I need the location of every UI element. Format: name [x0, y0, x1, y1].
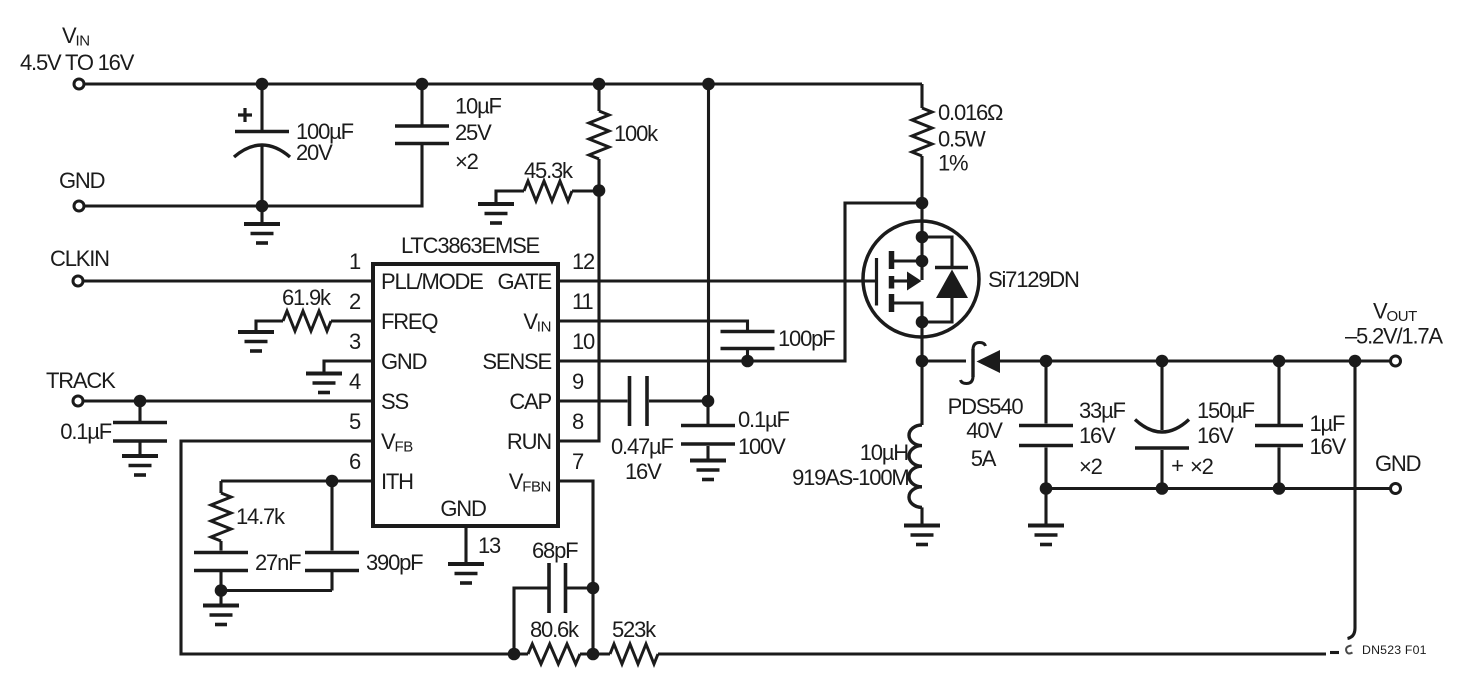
svg-text:×2: ×2: [1079, 454, 1103, 479]
svg-text:5A: 5A: [971, 446, 997, 471]
resistor R1 100k: [589, 84, 659, 159]
svg-text:100k: 100k: [614, 121, 659, 146]
svg-text:PLL/MODE: PLL/MODE: [381, 269, 483, 294]
wire GND pin 13: [464, 526, 467, 564]
Q1 drain stub: [892, 303, 923, 361]
junction R1 / R2 node: [593, 184, 606, 197]
svg-text:27nF: 27nF: [255, 550, 301, 575]
svg-text:–5.2V/1.7A: –5.2V/1.7A: [1345, 324, 1443, 349]
wire R3 to ground: [256, 321, 283, 332]
capacitor C3 0.1uF: [60, 401, 167, 456]
wire SENSE pin 10: [558, 203, 922, 361]
capacitor C1 100uF 20V: [234, 84, 354, 206]
junction input rail / C2: [416, 78, 429, 91]
Q1 body arrow head: [907, 272, 922, 291]
resistor R2 45.3k: [524, 158, 574, 201]
svg-text:×2: ×2: [1190, 454, 1214, 479]
node output GND terminal: [1375, 451, 1421, 494]
Q1 gate bar: [875, 258, 878, 306]
resistor R6 523k: [610, 617, 658, 664]
ground at R3: [238, 332, 274, 351]
Q1 source stub: [892, 259, 923, 262]
svg-text:523k: 523k: [612, 617, 657, 642]
svg-text:0.016Ω: 0.016Ω: [938, 100, 1003, 125]
svg-text:0.5W: 0.5W: [938, 127, 986, 152]
wire C9 left leg: [514, 588, 549, 654]
svg-text:10: 10: [572, 329, 595, 354]
svg-text:CLKIN: CLKIN: [50, 246, 109, 271]
junction Q1 source stub: [916, 255, 929, 268]
wire ITH pin 6: [221, 479, 373, 482]
U1 right pin labels: [482, 269, 551, 496]
ground below C8: [690, 461, 726, 480]
wire TRACK to SS pin 4: [83, 399, 373, 402]
svg-text:4: 4: [349, 369, 361, 394]
junction R7 / Q1 source: [916, 197, 929, 210]
svg-text:SS: SS: [381, 389, 408, 414]
ground below C1: [244, 206, 280, 243]
wire VOUT feedback drop: [1348, 361, 1356, 639]
junction bottom rail / C12: [1273, 482, 1286, 495]
wire R1 bottom to RUN pin: [558, 159, 599, 441]
Q1 body diode branch bottom: [922, 298, 952, 322]
wire VIN top rail: [84, 82, 922, 85]
svg-text:1%: 1%: [938, 151, 968, 176]
junction output rail / C11: [1156, 355, 1169, 368]
svg-text:61.9k: 61.9k: [282, 285, 332, 310]
svg-text:Si7129DN: Si7129DN: [988, 267, 1079, 292]
U1 bottom GND label: [440, 496, 486, 521]
svg-text:6: 6: [349, 449, 361, 474]
junction output rail / C12: [1273, 355, 1286, 368]
wire VIN rail to CAP node: [707, 84, 710, 401]
wire C7 to CAP node: [649, 399, 708, 402]
transistor Q1 Si7129DN circle: [863, 221, 1079, 337]
capacitor C8 0.1uF 100V: [681, 401, 789, 460]
capacitor C2 10uF 25V x2: [395, 84, 502, 174]
wire output GND rail: [1046, 487, 1391, 490]
wire C9 right leg: [566, 586, 594, 589]
svg-text:8: 8: [572, 409, 584, 434]
svg-text:25V: 25V: [455, 120, 492, 145]
wire D1 to output rail: [999, 359, 1391, 362]
svg-text:919AS-100M: 919AS-100M: [792, 465, 908, 490]
capacitor C5 390pF: [305, 481, 423, 591]
junction Q1 drain stub: [916, 316, 929, 329]
svg-text:100pF: 100pF: [778, 326, 835, 351]
svg-text:GND: GND: [440, 496, 486, 521]
diode D1 schottky cathode: [961, 343, 986, 384]
svg-text:13: 13: [478, 533, 501, 558]
svg-text:TRACK: TRACK: [46, 368, 116, 393]
svg-text:SENSE: SENSE: [482, 349, 551, 374]
svg-text:4.5V TO 16V: 4.5V TO 16V: [20, 50, 135, 75]
svg-text:14.7k: 14.7k: [236, 504, 286, 529]
ground at pin 3: [306, 374, 342, 393]
svg-text:68pF: 68pF: [532, 538, 578, 563]
capacitor C10 33uF 16V x2: [1019, 361, 1126, 489]
capacitor C6 100pF: [721, 326, 836, 361]
Q1 body diode cathode bar: [935, 266, 968, 270]
svg-text:16V: 16V: [1197, 423, 1234, 448]
ground at pin 13: [448, 564, 484, 583]
U1 right pin numbers: [572, 249, 595, 474]
Q1 vertical source line: [920, 203, 923, 280]
svg-text:CAP: CAP: [509, 389, 551, 414]
junction feedback rail mid: [587, 648, 600, 661]
wire VFB pin 5 feedback loop: [181, 441, 528, 654]
svg-text:GND: GND: [381, 349, 427, 374]
junction ITH node: [326, 475, 339, 488]
capacitor C4 27nF: [194, 541, 301, 591]
svg-text:390pF: 390pF: [366, 550, 423, 575]
wire VIN pin 11 to C6: [558, 321, 748, 330]
svg-text:GND: GND: [59, 168, 105, 193]
resistor R4 14.7k: [211, 481, 286, 541]
op-amp U1 LTC3863EMSE body: [373, 233, 558, 526]
ground below L1: [904, 526, 940, 545]
node GND input terminal: [59, 168, 105, 211]
node TRACK terminal: [46, 368, 116, 406]
wire C5 bottom to ground node: [221, 589, 332, 592]
wire input GND rail: [84, 144, 422, 207]
svg-text:40V: 40V: [966, 418, 1003, 443]
resistor R3 61.9k: [282, 285, 332, 331]
svg-text:33µF: 33µF: [1079, 398, 1126, 423]
wire VFBN pin 7: [558, 481, 593, 654]
svg-text:RUN: RUN: [507, 429, 551, 454]
svg-text:FREQ: FREQ: [381, 309, 438, 334]
svg-text:×2: ×2: [455, 149, 479, 174]
node CLKIN terminal: [50, 246, 109, 286]
wire CAP pin 9: [558, 399, 628, 402]
wire GND pin 3: [324, 361, 373, 374]
U1 left pin numbers: [349, 249, 361, 474]
svg-text:GATE: GATE: [498, 269, 552, 294]
svg-text:10µF: 10µF: [455, 94, 502, 119]
svg-text:PDS540: PDS540: [948, 394, 1024, 419]
Q1 body diode branch top: [922, 237, 952, 266]
svg-text:0.47µF: 0.47µF: [611, 434, 673, 459]
svg-text:+: +: [1171, 453, 1183, 478]
svg-text:16V: 16V: [1310, 434, 1347, 459]
svg-text:LTC3863EMSE: LTC3863EMSE: [401, 233, 540, 258]
node VOUT terminal: [1345, 299, 1443, 367]
svg-text:0.1µF: 0.1µF: [738, 407, 789, 432]
svg-text:7: 7: [572, 449, 584, 474]
svg-text:0.1µF: 0.1µF: [60, 419, 111, 444]
Q1 channel segments: [889, 251, 895, 312]
svg-text:150µF: 150µF: [1197, 398, 1255, 423]
ground below C3: [122, 456, 158, 475]
wire 80.6k to junction: [580, 652, 610, 655]
junction TRACK / C3: [134, 395, 147, 408]
capacitor C7 0.47uF 16V: [611, 376, 673, 484]
svg-text:20V: 20V: [296, 140, 333, 165]
svg-text:10µH: 10µH: [860, 440, 909, 465]
svg-text:2: 2: [349, 289, 361, 314]
U1 left pin labels: [381, 269, 483, 494]
svg-text:1µF: 1µF: [1310, 411, 1346, 436]
junction CAP node: [702, 395, 715, 408]
junction switch node: [916, 355, 929, 368]
wire R3 to FREQ pin 2: [331, 319, 373, 322]
junction bottom rail / C11: [1156, 482, 1169, 495]
capacitor C11 150uF 16V x2 polarized: [1135, 361, 1255, 489]
junction input rail / R1: [593, 78, 606, 91]
svg-text:16V: 16V: [1079, 423, 1116, 448]
ground at R2: [478, 204, 514, 223]
junction feedback rail left: [508, 648, 521, 661]
svg-text:80.6k: 80.6k: [530, 617, 580, 642]
junction input rail / C1: [256, 78, 269, 91]
inductor L1 10uH 919AS-100M: [792, 361, 922, 526]
Q1 body arrow stub: [892, 279, 908, 282]
figure label mark: [1346, 646, 1352, 654]
wire GATE pin 12 to Q1 gate: [558, 279, 877, 282]
figure label DN523 F01: [1362, 643, 1427, 657]
pin 13 number: [478, 533, 501, 558]
svg-text:DN523 F01: DN523 F01: [1362, 643, 1427, 657]
resistor R7 0.016ohm 0.5W 1%: [912, 84, 1003, 203]
svg-text:12: 12: [572, 249, 595, 274]
ground below C10: [1028, 489, 1064, 545]
Q1 body diode triangle: [936, 270, 968, 299]
diode D1 triangle: [948, 350, 1024, 471]
svg-text:100V: 100V: [738, 434, 786, 459]
svg-text:16V: 16V: [625, 459, 662, 484]
svg-text:ITH: ITH: [381, 469, 413, 494]
junction output rail / C10: [1040, 355, 1053, 368]
junction Q1 drain tap top: [916, 231, 929, 244]
junction below C4: [215, 584, 228, 597]
junction SENSE / C6: [741, 355, 754, 368]
svg-text:1: 1: [349, 249, 361, 274]
junction GND rail / C1: [256, 200, 269, 213]
junction input rail x708: [702, 78, 715, 91]
ground below C4: [203, 591, 239, 625]
node VIN input terminal: [20, 23, 135, 89]
junction VFBN / C9: [587, 582, 600, 595]
junction output rail / feedback: [1349, 355, 1362, 368]
wire R2 right to node: [572, 189, 599, 192]
wire switch node to D1: [922, 359, 966, 362]
svg-text:3: 3: [349, 329, 361, 354]
svg-text:45.3k: 45.3k: [524, 158, 574, 183]
capacitor C9 68pF: [532, 538, 578, 613]
svg-text:11: 11: [572, 289, 593, 314]
wire CLKIN to pin 1: [83, 279, 373, 282]
svg-text:GND: GND: [1375, 451, 1421, 476]
junction bottom rail / C10: [1040, 482, 1053, 495]
capacitor C12 1uF 16V: [1255, 361, 1347, 489]
wire R2 left to ground: [496, 191, 524, 204]
wire feedback rail to right: [658, 652, 1326, 655]
resistor R5 80.6k: [528, 617, 580, 664]
svg-text:9: 9: [572, 369, 584, 394]
wire feedback rail stub: [1330, 651, 1339, 654]
svg-text:5: 5: [349, 409, 361, 434]
